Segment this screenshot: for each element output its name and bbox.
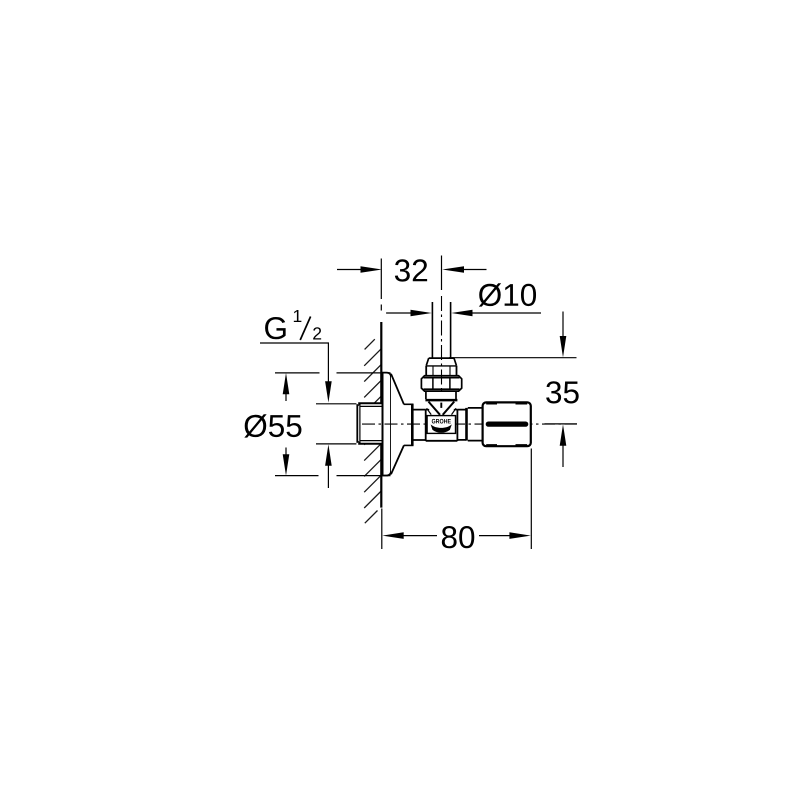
dimension O55: top arrowhead (up) (283, 373, 290, 394)
stem flange (465, 408, 468, 441)
GROHE wordmark (432, 419, 451, 424)
dimension 35: top arrowhead (down) (560, 336, 567, 357)
dimension O55: extension lines and arrow tails (275, 373, 391, 476)
dimension 35: value text "35" (546, 381, 579, 403)
centerline: valve horizontal axis (dash-dot) (362, 423, 577, 425)
dimension 32: value text "32" (395, 259, 427, 281)
label G 1/2: leader arrowhead (down) (325, 381, 332, 402)
wall (380, 322, 382, 508)
thread extension lines (G 1/2) (316, 404, 356, 444)
centerline: pipe vertical axis (dash-dot) (441, 296, 443, 392)
label G 1/2: letter G (265, 317, 286, 339)
wall hatching (364, 339, 381, 523)
dimension O10: value text "O10" (479, 283, 536, 306)
stem (468, 408, 482, 441)
handle top chamfer lines (486, 403, 527, 405)
dimension 35: bottom arrowhead (up) (560, 424, 567, 445)
dimension 35: extension lines and arrow tails (449, 312, 577, 468)
GROHE laurel wreath (431, 424, 452, 432)
dimension O10: right arrowhead (451, 310, 472, 317)
dimension O55: bottom arrowhead (down) (283, 454, 290, 475)
thread lower arrowhead (up) with tail (325, 444, 332, 465)
dimension 32: right arrowhead (442, 266, 464, 273)
extension line: right end of axis (35 dim) (545, 423, 578, 425)
label G 1/2: numerator 1 (294, 310, 302, 322)
funnel (upper inlet cone into body) (429, 402, 441, 415)
union hex nut (421, 376, 461, 392)
dimension O10: dimension lines (386, 312, 541, 314)
dimension 80: value text "80" (442, 526, 474, 548)
label G 1/2: leader line (260, 343, 328, 384)
dimension 32: left arrowhead (361, 266, 383, 273)
escutcheon collar (404, 404, 414, 445)
GROHE label panel (427, 416, 455, 434)
label G 1/2: denominator 2 (313, 327, 321, 339)
union compression cap (429, 357, 454, 359)
pipe O10 (432, 302, 450, 358)
escutcheon flange (383, 373, 391, 476)
inlet tube (414, 410, 426, 440)
handle bottom chamfer lines (486, 444, 527, 446)
outlet tube (457, 410, 466, 440)
escutcheon cone (391, 374, 404, 474)
thread G1/2 male (into wall) (357, 403, 382, 445)
dimension 80: right arrowhead (509, 532, 530, 539)
union neck below nut (426, 391, 456, 399)
extension line: pipe vertical axis (32 dim) (441, 256, 443, 291)
label G 1/2: fraction slash (300, 317, 310, 341)
dimension O10: left arrowhead (411, 310, 432, 317)
handle grip groove (black band) (486, 422, 529, 427)
dimension O55: value text "O55" (244, 414, 301, 437)
valve body (426, 410, 458, 441)
dimension 32: extension and dimension lines (337, 259, 487, 311)
dimension 80: left arrowhead (382, 532, 403, 539)
handle (shut-off knob) (483, 402, 531, 446)
dimension 80: extension and dimension lines (382, 449, 532, 550)
